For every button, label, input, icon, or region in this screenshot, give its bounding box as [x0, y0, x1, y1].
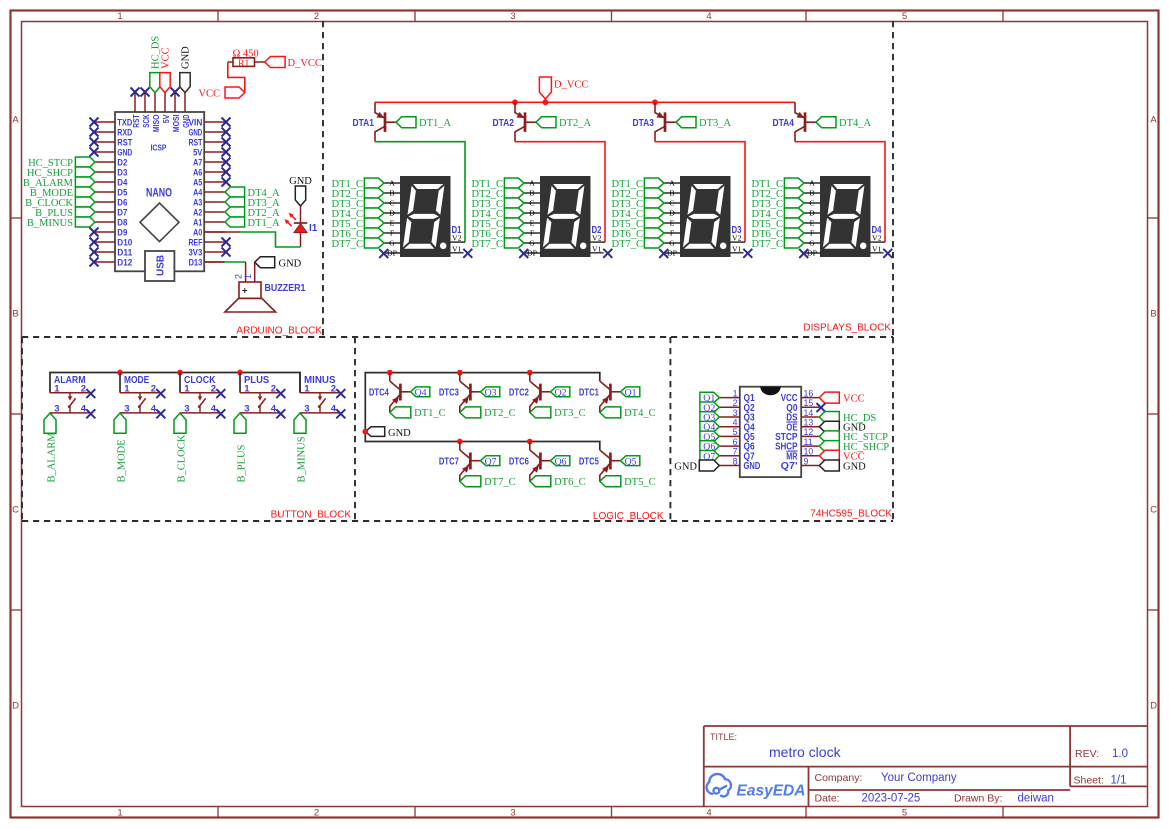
NANO pin A7 (right): [204, 161, 225, 163]
wire R1 right to D_VCC: [255, 61, 265, 63]
74HC595 pin 4 Q4: [719, 426, 740, 428]
no-connect X on PLUS pin 2: [276, 389, 285, 398]
svg-text:Q3: Q3: [485, 387, 497, 398]
svg-text:2: 2: [151, 383, 156, 394]
no-connect X on top pin MOSI: [171, 88, 180, 97]
NANO pin A6 (right): [204, 171, 225, 173]
no-connect X on D4 DP: [799, 249, 808, 258]
no-connect X on A5: [222, 178, 231, 187]
NANO pin RST (left): [95, 141, 115, 143]
svg-text:B_MODE: B_MODE: [117, 439, 128, 482]
svg-text:DT7_C: DT7_C: [472, 239, 504, 250]
svg-text:V2: V2: [592, 234, 602, 243]
7-segment display D3 body: [681, 177, 731, 257]
svg-text:6: 6: [733, 437, 738, 447]
NANO pin A5 (right): [204, 181, 225, 183]
ground flag GND (top): [180, 73, 190, 93]
net flag DT7_C (D2): [504, 238, 524, 248]
net flag DT2_C (D2): [504, 188, 524, 198]
svg-text:G: G: [669, 239, 675, 248]
svg-text:I1: I1: [309, 223, 318, 234]
net flag DT1_A: [225, 217, 245, 227]
transistor DTC3: [460, 381, 470, 389]
net flag DT6_C: [530, 476, 551, 487]
net flag Q4 (74HC595): [700, 421, 719, 432]
display D4 pin C: [804, 202, 821, 204]
net flag DT2_C: [460, 407, 481, 418]
svg-text:14: 14: [804, 408, 814, 418]
net flag VCC (74HC595 right): [819, 450, 839, 461]
svg-text:5V: 5V: [193, 147, 202, 157]
svg-text:D: D: [529, 209, 535, 218]
svg-text:NANO: NANO: [146, 188, 172, 200]
svg-text:Q4: Q4: [415, 387, 427, 398]
svg-text:F: F: [670, 229, 675, 238]
svg-text:GND: GND: [289, 176, 312, 187]
NANO pin REF (right): [204, 241, 225, 243]
NANO pin SCK (top): [144, 93, 146, 112]
title block: [704, 725, 1148, 727]
no-connect X on MINUS pin 2: [336, 389, 345, 398]
svg-text:LOGIC_BLOCK: LOGIC_BLOCK: [593, 511, 664, 522]
transistor DTC7: [460, 450, 470, 458]
transistor DTA1: [375, 102, 384, 117]
display D3 pin G: [664, 242, 681, 244]
svg-text:R1: R1: [238, 59, 249, 69]
svg-text:TITLE:: TITLE:: [710, 732, 737, 742]
svg-text:E: E: [810, 219, 815, 228]
svg-text:MISO: MISO: [151, 114, 161, 132]
net flag DT3_C (D2): [504, 198, 524, 208]
net flag DT1_C (D1): [364, 178, 384, 188]
wire rail drop DTC3: [459, 373, 461, 382]
net flag DT5_C (D1): [364, 218, 384, 228]
no-connect X on GND: [222, 128, 231, 137]
display D3 pin C: [664, 202, 681, 204]
net flag DT6_C (D4): [784, 228, 804, 238]
display D1 pin DP: [384, 252, 401, 254]
net flag B_CLOCK: [174, 413, 186, 433]
net flag B_PLUS: [75, 207, 95, 217]
wire rail drop DTC7: [459, 442, 461, 451]
svg-text:USB: USB: [156, 255, 167, 276]
svg-text:C: C: [529, 199, 534, 208]
NANO pin D12 (left): [95, 261, 115, 263]
svg-text:A: A: [12, 115, 19, 126]
display D2 pin V1: [590, 252, 604, 254]
svg-text:2: 2: [331, 383, 336, 394]
net flag DT7_C (D3): [644, 238, 664, 248]
no-connect X on Q0: [817, 403, 826, 412]
74HC595 pin 11 SHCP: [801, 445, 819, 447]
net flag DT6_C (D3): [644, 228, 664, 238]
svg-text:74HC595_BLOCK: 74HC595_BLOCK: [810, 509, 892, 520]
svg-text:GND: GND: [674, 461, 697, 472]
svg-text:D: D: [12, 701, 19, 712]
NANO pin GND (right): [204, 131, 225, 133]
svg-text:DT7_C: DT7_C: [332, 239, 364, 250]
svg-text:DT3_C: DT3_C: [554, 408, 586, 419]
display D3 pin DP: [664, 252, 681, 254]
svg-text:E: E: [530, 219, 535, 228]
display D3 pin E: [664, 222, 681, 224]
NANO pin RXD (left): [95, 131, 115, 133]
no-connect X on D2 DP: [519, 249, 528, 258]
svg-text:Your Company: Your Company: [881, 772, 957, 784]
svg-text:3: 3: [54, 404, 59, 415]
NANO pin D2 (left): [95, 161, 115, 163]
svg-text:3: 3: [184, 404, 189, 415]
svg-text:DP: DP: [527, 249, 538, 258]
LED emission arrows: [290, 214, 296, 220]
74HC595 pin 5 Q5: [719, 435, 740, 437]
svg-text:DP: DP: [667, 249, 678, 258]
NANO pin 5V (top): [164, 93, 166, 112]
button top rail wire: [50, 373, 300, 393]
svg-text:B: B: [389, 189, 394, 198]
IC notch: [760, 387, 780, 396]
74HC595 pin 7 Q7: [719, 455, 740, 457]
NANO pin VIN (right): [204, 121, 225, 123]
block ARDUINO_BLOCK dashed outline: [322, 21, 324, 337]
svg-text:DT7_C: DT7_C: [752, 239, 784, 250]
svg-text:REV:: REV:: [1075, 748, 1099, 760]
svg-text:D_VCC: D_VCC: [554, 80, 588, 91]
NANO pin A1 (right): [204, 221, 225, 223]
net flag DT6_C (D2): [504, 228, 524, 238]
net flag DT1_C: [390, 407, 411, 418]
net flag DT3_C (D1): [364, 198, 384, 208]
no-connect X on PLUS pin 4: [276, 409, 285, 418]
net flag Q7: [480, 456, 499, 466]
display D4 pin B: [804, 192, 821, 194]
display D2 pin F: [524, 232, 541, 234]
svg-text:DTA1: DTA1: [353, 117, 375, 129]
transistor DTC4: [390, 381, 400, 389]
74HC595 pin 9 Q7': [801, 465, 819, 467]
svg-text:1: 1: [304, 383, 310, 394]
display D3 pin V1: [730, 252, 744, 254]
transistor DTA2: [515, 102, 524, 117]
no-connect X on D10: [90, 238, 99, 247]
svg-text:4: 4: [733, 418, 738, 428]
svg-text:BUZZER1: BUZZER1: [265, 283, 306, 294]
ground flag GND (74HC595 pin8): [699, 460, 719, 471]
no-connect X on D12: [90, 258, 99, 267]
svg-text:DISPLAYS_BLOCK: DISPLAYS_BLOCK: [803, 323, 891, 334]
display D4 pin D: [804, 212, 821, 214]
svg-text:3: 3: [124, 404, 129, 415]
net flag D_VCC: [265, 57, 285, 68]
wire GND to buzzer pin 1: [254, 262, 256, 282]
NANO pin D11 (left): [95, 251, 115, 253]
NANO pin D8 (left): [95, 221, 115, 223]
svg-text:9: 9: [804, 456, 809, 466]
net flag Q3 (74HC595): [700, 412, 719, 423]
svg-text:1: 1: [117, 11, 122, 22]
svg-text:2: 2: [234, 274, 244, 279]
svg-text:DT7_C: DT7_C: [484, 477, 515, 488]
svg-text:1.0: 1.0: [1112, 748, 1128, 760]
NANO pin A4 (right): [204, 191, 225, 193]
svg-text:B: B: [12, 309, 18, 320]
svg-text:D5: D5: [117, 187, 127, 197]
no-connect X on ALARM pin 4: [86, 409, 95, 418]
svg-text:4: 4: [151, 404, 157, 415]
NANO pin D3 (left): [95, 171, 115, 173]
74HC595 pin 8 GND: [719, 465, 740, 467]
svg-text:RST: RST: [189, 137, 203, 147]
svg-text:DTA3: DTA3: [633, 117, 655, 129]
svg-text:8: 8: [733, 456, 738, 466]
svg-text:DTC7: DTC7: [439, 455, 459, 467]
NANO pin D5 (left): [95, 191, 115, 193]
display D2 pin D: [524, 212, 541, 214]
svg-text:GND: GND: [843, 461, 866, 472]
74HC595 pin 15 Q0: [801, 406, 819, 408]
net flag GND (74HC595 right): [819, 421, 839, 432]
display D1 pin G: [384, 242, 401, 244]
svg-text:DT2_A: DT2_A: [559, 118, 591, 129]
wire R1 left: [228, 61, 233, 63]
svg-text:DT7_C: DT7_C: [612, 239, 644, 250]
display D2 pin A: [524, 182, 541, 184]
NANO pin GND (top): [184, 93, 186, 112]
svg-text:ICSP: ICSP: [151, 144, 167, 153]
display D2 pin DP: [524, 252, 541, 254]
svg-text:4: 4: [81, 404, 87, 415]
display D1 pin V1: [450, 252, 464, 254]
svg-text:F: F: [530, 229, 535, 238]
svg-text:D11: D11: [117, 247, 132, 257]
7-segment display D4 body: [821, 177, 871, 257]
display D2 pin E: [524, 222, 541, 224]
svg-text:1: 1: [54, 383, 60, 394]
svg-text:3: 3: [733, 408, 738, 418]
svg-text:DT2_C: DT2_C: [484, 408, 515, 419]
svg-text:A2: A2: [193, 207, 202, 217]
net flag DT7_C: [460, 476, 481, 487]
svg-text:F: F: [390, 229, 395, 238]
display D1 pin B: [384, 192, 401, 194]
svg-text:E: E: [390, 219, 395, 228]
svg-text:Q6: Q6: [555, 456, 567, 467]
7-segment display D2 body: [541, 177, 591, 257]
display D3 pin F: [664, 232, 681, 234]
wire DTA3 collector to display D3: [655, 142, 745, 242]
74HC595 pin 13 OE: [801, 426, 819, 428]
net flag Q6: [550, 456, 569, 466]
svg-text:4: 4: [271, 404, 277, 415]
net flag B_MODE: [114, 413, 126, 433]
transistor DTA3: [655, 102, 664, 117]
svg-text:BUTTON_BLOCK: BUTTON_BLOCK: [271, 510, 352, 521]
wire rail drop DTC2: [529, 373, 531, 382]
net flag VCC (74HC595 right): [819, 392, 839, 403]
net flag HC_STCP (74HC595 right): [819, 431, 839, 442]
svg-text:DTA2: DTA2: [493, 117, 515, 129]
NANO diamond mark: [140, 203, 179, 242]
svg-text:DT4_C: DT4_C: [624, 408, 656, 419]
net flag DT4_C (D1): [364, 208, 384, 218]
svg-text:7: 7: [733, 447, 738, 457]
svg-text:DT1_A: DT1_A: [419, 118, 451, 129]
svg-text:SCK: SCK: [141, 114, 151, 128]
svg-text:GND: GND: [279, 259, 302, 270]
net flag DT7_C (D4): [784, 238, 804, 248]
svg-text:B_MINUS: B_MINUS: [297, 436, 308, 482]
svg-text:Company:: Company:: [815, 772, 863, 784]
net flag DT2_A: [536, 117, 556, 128]
net flag DT1_A: [396, 117, 416, 128]
svg-text:EasyEDA: EasyEDA: [737, 783, 806, 800]
NANO pin A2 (right): [204, 211, 225, 213]
svg-text:2: 2: [314, 808, 319, 819]
display D2 pin G: [524, 242, 541, 244]
net flag DT4_C (D3): [644, 208, 664, 218]
NANO pin RST (top): [134, 93, 136, 112]
net flag D_VCC (displays): [539, 77, 551, 99]
net flag DT2_A: [225, 207, 245, 217]
svg-text:E: E: [670, 219, 675, 228]
net flag HC_SHCP: [75, 167, 95, 177]
svg-text:DTC6: DTC6: [509, 455, 529, 467]
net flag Q5: [620, 456, 639, 466]
svg-text:V2: V2: [872, 234, 882, 243]
no-connect X on D1 DP: [379, 249, 388, 258]
wire GND to LED: [300, 206, 302, 223]
no-connect X on D11: [90, 248, 99, 257]
net flag Q2 (74HC595): [700, 402, 719, 413]
net flag DT3_C: [530, 407, 551, 418]
display D1 pin D: [384, 212, 401, 214]
display D4 pin E: [804, 222, 821, 224]
wire D13 to buzzer pin 2: [204, 261, 224, 263]
svg-text:VCC: VCC: [198, 88, 220, 99]
svg-text:B_MINUS: B_MINUS: [27, 218, 73, 229]
no-connect X on D9: [90, 228, 99, 237]
svg-text:F: F: [810, 229, 815, 238]
svg-text:V1: V1: [732, 245, 742, 254]
svg-text:4: 4: [706, 808, 711, 819]
svg-text:4: 4: [211, 404, 217, 415]
NANO pin MISO (top): [154, 93, 156, 112]
display D4 pin DP: [804, 252, 821, 254]
svg-text:3: 3: [510, 11, 515, 22]
no-connect X on ALARM pin 2: [86, 389, 95, 398]
svg-text:13: 13: [804, 418, 814, 428]
no-connect X on CLOCK pin 4: [216, 409, 225, 418]
svg-text:Drawn By:: Drawn By:: [954, 793, 1002, 805]
logic bottom rail wire: [365, 432, 600, 450]
wire rail drop PLUS: [239, 373, 241, 393]
svg-text:2: 2: [81, 383, 86, 394]
display D2 pin B: [524, 192, 541, 194]
74HC595 pin 1 Q1: [719, 397, 740, 399]
svg-text:DT1_C: DT1_C: [414, 408, 446, 419]
net flag B_CLOCK: [75, 197, 95, 207]
svg-text:A: A: [809, 179, 815, 188]
wire rail drop CLOCK: [179, 373, 181, 393]
net flag Q2: [550, 387, 569, 397]
svg-text:4: 4: [331, 404, 337, 415]
no-connect X on A6: [222, 168, 231, 177]
svg-text:D2: D2: [117, 157, 127, 167]
net flag DT2_C (D4): [784, 188, 804, 198]
svg-text:+: +: [242, 285, 248, 296]
svg-text:C: C: [1150, 505, 1157, 516]
net flag DT5_C (D3): [644, 218, 664, 228]
wire DTA1 collector to display D1: [375, 142, 465, 242]
svg-text:V1: V1: [872, 245, 882, 254]
svg-text:deiwan: deiwan: [1018, 793, 1054, 805]
net flag DT1_C (D3): [644, 178, 664, 188]
display D3 pin A: [664, 182, 681, 184]
wire R1 to VCC: [228, 62, 245, 93]
svg-text:2: 2: [314, 11, 319, 22]
svg-text:MOSI: MOSI: [171, 115, 181, 133]
display D3 pin D: [664, 212, 681, 214]
wire DTA4 collector to display D4: [795, 142, 885, 242]
NANO pin 3V3 (right): [204, 251, 225, 253]
net flag B_MINUS: [294, 413, 306, 433]
svg-text:Q2: Q2: [555, 387, 567, 398]
power flag VCC: [225, 87, 245, 98]
no-connect X on TXD: [90, 118, 99, 127]
svg-text:V1: V1: [452, 245, 462, 254]
IC 74HC595 body: [740, 387, 801, 477]
display D4 pin V1: [870, 252, 884, 254]
svg-text:B_PLUS: B_PLUS: [237, 444, 248, 482]
svg-text:V1: V1: [592, 245, 602, 254]
net flag DT3_A: [225, 197, 245, 207]
net flag Q5 (74HC595): [700, 431, 719, 442]
ground flag GND (LED): [295, 186, 305, 206]
svg-text:D7: D7: [117, 207, 127, 217]
svg-text:B_ALARM: B_ALARM: [47, 432, 58, 483]
no-connect X on D3 DP: [659, 249, 668, 258]
svg-text:D9: D9: [117, 227, 127, 237]
net flag B_ALARM: [75, 177, 95, 187]
svg-text:REF: REF: [189, 237, 203, 247]
svg-text:GND: GND: [117, 147, 132, 157]
svg-text:C: C: [809, 199, 814, 208]
svg-text:A6: A6: [193, 167, 202, 177]
net flag Q3: [480, 387, 499, 397]
no-connect X on 3V3: [222, 248, 231, 257]
svg-text:C: C: [669, 199, 674, 208]
net flag DT4_C: [600, 407, 621, 418]
svg-text:TXD: TXD: [117, 117, 132, 127]
74HC595 pin 16 VCC: [801, 397, 819, 399]
ground flag GND (buzzer): [255, 257, 275, 268]
74HC595 pin 14 DS: [801, 416, 819, 418]
junction dots on button rail: [117, 370, 123, 376]
transistor DTC2: [530, 381, 540, 389]
7-segment display D1 body: [401, 177, 451, 257]
no-connect X on RST: [222, 138, 231, 147]
svg-text:2: 2: [211, 383, 216, 394]
svg-text:A: A: [389, 179, 395, 188]
net flag DT4_A: [816, 117, 836, 128]
net flag HC_SHCP (74HC595 right): [819, 441, 839, 452]
74HC595 pin 6 Q6: [719, 445, 740, 447]
net flag DT6_C (D1): [364, 228, 384, 238]
wire rail drop MODE: [119, 373, 121, 393]
ground flag GND (logic): [365, 427, 384, 437]
wire rail drop DTC6: [529, 442, 531, 451]
EasyEDA logo: [707, 774, 731, 796]
